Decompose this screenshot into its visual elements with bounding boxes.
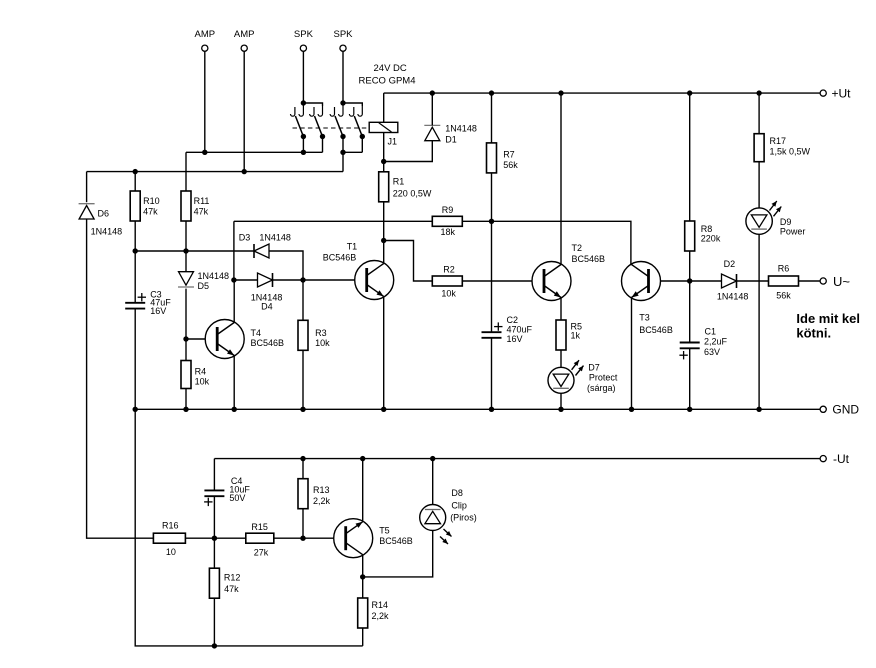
svg-text:R11: R11	[194, 196, 210, 206]
svg-text:BC546B: BC546B	[572, 254, 606, 264]
svg-text:D5: D5	[198, 281, 210, 291]
svg-text:56k: 56k	[776, 290, 791, 300]
svg-text:R6: R6	[778, 264, 790, 274]
svg-text:R8: R8	[701, 224, 713, 234]
svg-text:R13: R13	[313, 485, 330, 495]
svg-text:R7: R7	[503, 150, 515, 160]
svg-text:1k: 1k	[571, 330, 581, 340]
svg-text:T1: T1	[347, 242, 358, 252]
svg-text:BC546B: BC546B	[323, 253, 357, 263]
svg-text:T4: T4	[251, 328, 262, 338]
svg-text:10k: 10k	[441, 288, 456, 298]
svg-text:R9: R9	[442, 205, 454, 215]
svg-text:2,2k: 2,2k	[372, 611, 390, 621]
svg-text:T5: T5	[379, 526, 390, 536]
svg-text:47k: 47k	[143, 207, 158, 217]
svg-text:1N4148: 1N4148	[198, 271, 230, 281]
svg-text:1N4148: 1N4148	[717, 291, 749, 301]
svg-text:R17: R17	[770, 136, 787, 146]
svg-text:Power: Power	[780, 227, 806, 237]
svg-text:R12: R12	[224, 573, 241, 583]
svg-text:16V: 16V	[150, 306, 166, 316]
svg-text:-Ut: -Ut	[833, 452, 850, 466]
svg-text:18k: 18k	[440, 227, 455, 237]
svg-text:1,5k 0,5W: 1,5k 0,5W	[770, 147, 811, 157]
svg-text:(sárga): (sárga)	[587, 383, 616, 393]
svg-text:16V: 16V	[507, 334, 523, 344]
svg-text:Protect: Protect	[589, 373, 618, 383]
svg-text:BC546B: BC546B	[639, 325, 673, 335]
svg-text:47k: 47k	[194, 207, 209, 217]
svg-text:C1: C1	[705, 326, 717, 336]
svg-text:RECO GPM4: RECO GPM4	[359, 76, 416, 87]
svg-text:GND: GND	[832, 403, 859, 417]
svg-text:1N4148: 1N4148	[259, 233, 291, 243]
svg-text:R15: R15	[251, 522, 268, 532]
svg-text:50V: 50V	[229, 493, 245, 503]
svg-text:(Piros): (Piros)	[450, 512, 477, 522]
svg-text:Ide mit kel: Ide mit kel	[796, 311, 860, 326]
svg-text:BC546B: BC546B	[379, 536, 413, 546]
svg-text:AMP: AMP	[195, 29, 216, 40]
svg-text:T2: T2	[572, 243, 583, 253]
svg-text:D8: D8	[451, 488, 463, 498]
svg-text:47k: 47k	[224, 584, 239, 594]
svg-text:2,2k: 2,2k	[313, 496, 331, 506]
svg-text:10k: 10k	[315, 338, 330, 348]
svg-text:10k: 10k	[195, 377, 210, 387]
svg-text:SPK: SPK	[294, 29, 314, 40]
svg-text:R1: R1	[393, 177, 405, 187]
svg-text:D6: D6	[98, 208, 110, 218]
svg-text:D3: D3	[239, 233, 251, 243]
svg-text:D9: D9	[780, 217, 792, 227]
svg-text:AMP: AMP	[234, 29, 255, 40]
svg-text:27k: 27k	[254, 547, 269, 557]
svg-text:SPK: SPK	[333, 29, 353, 40]
svg-text:2,2uF: 2,2uF	[704, 337, 728, 347]
svg-text:Clip: Clip	[451, 501, 467, 511]
svg-text:10: 10	[166, 547, 176, 557]
svg-text:24V DC: 24V DC	[374, 63, 407, 74]
svg-text:1N4148: 1N4148	[91, 226, 123, 236]
svg-text:R16: R16	[162, 520, 179, 530]
svg-text:D7: D7	[588, 362, 600, 372]
svg-text:BC546B: BC546B	[251, 338, 285, 348]
svg-text:220 0,5W: 220 0,5W	[393, 188, 432, 198]
svg-text:56k: 56k	[503, 160, 518, 170]
svg-text:D2: D2	[724, 259, 736, 269]
svg-text:470uF: 470uF	[507, 324, 533, 334]
svg-text:R14: R14	[372, 600, 389, 610]
svg-text:D1: D1	[445, 134, 457, 144]
svg-text:D4: D4	[261, 302, 273, 312]
svg-text:R10: R10	[143, 196, 160, 206]
svg-text:T3: T3	[639, 312, 650, 322]
svg-text:J1: J1	[388, 137, 398, 147]
svg-text:1N4148: 1N4148	[445, 124, 477, 134]
svg-text:220k: 220k	[701, 234, 721, 244]
svg-text:U~: U~	[833, 274, 850, 289]
svg-text:63V: 63V	[704, 347, 720, 357]
svg-text:R3: R3	[315, 328, 327, 338]
svg-text:+Ut: +Ut	[832, 87, 852, 101]
svg-text:kötni.: kötni.	[796, 326, 831, 341]
svg-text:R4: R4	[195, 367, 207, 377]
svg-text:R2: R2	[443, 265, 455, 275]
